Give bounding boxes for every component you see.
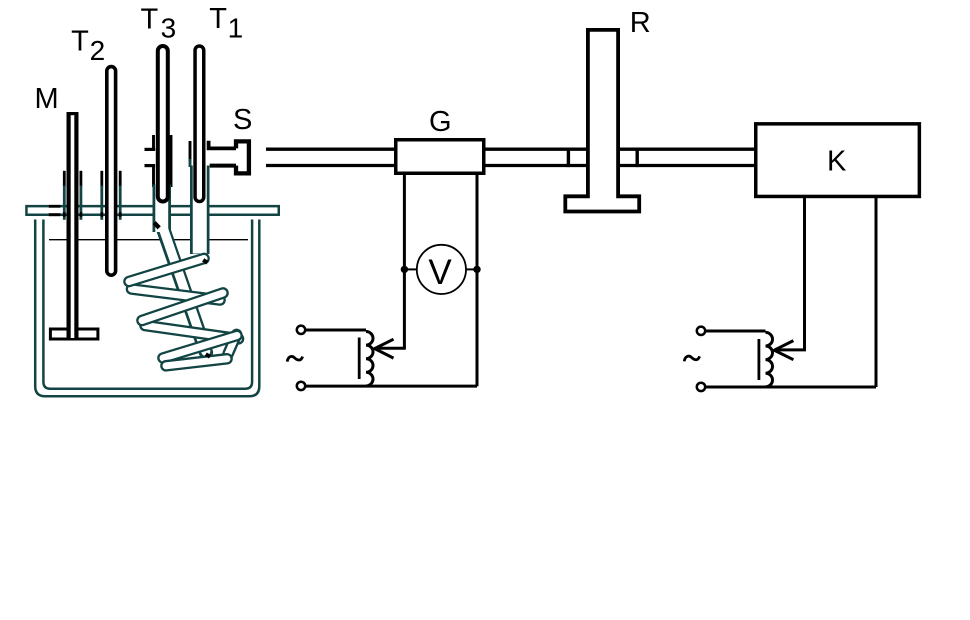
bus wire top — [266, 148, 754, 151]
calorimeter lid — [26, 205, 278, 216]
bus wire bottom — [266, 164, 754, 167]
heater coil turn E (bottom strand) — [166, 359, 227, 366]
bus tick 2 — [636, 148, 639, 168]
svg-text:1: 1 — [228, 12, 244, 43]
autotransformer right: bottom wire — [705, 386, 876, 389]
autotransformer right: terminal top — [697, 327, 705, 335]
voltmeter V — [406, 245, 476, 294]
autotransformer left: AC tilde — [287, 356, 302, 361]
autotransformer left: core bar — [358, 338, 361, 380]
svg-text:V: V — [428, 253, 452, 292]
autotransformer right: AC tilde — [684, 356, 699, 361]
heater coil right connector strand — [228, 335, 237, 355]
heater wire end marks — [154, 223, 210, 357]
svg-text:T: T — [209, 3, 227, 35]
label T1 — [209, 3, 243, 43]
switch plug S body — [236, 141, 249, 173]
autotransformer right: wiper arrow — [774, 341, 793, 360]
svg-text:T: T — [71, 26, 89, 58]
svg-text:S: S — [233, 104, 252, 136]
label T2 — [71, 26, 105, 66]
svg-text:K: K — [827, 146, 847, 178]
wire from G right down — [476, 175, 479, 386]
rheostat R body — [565, 30, 639, 212]
heater lead tube right (vertical part) — [190, 141, 200, 254]
heater coil turn A (front strand) — [129, 259, 204, 282]
heater coil turn F2 (front strand) — [142, 293, 223, 321]
wire from K right down — [875, 198, 878, 387]
thermometer T1 — [195, 46, 204, 202]
stirrer collar through lid — [64, 171, 81, 220]
autotransformer left: wiper arrow — [375, 339, 394, 358]
label T3 — [141, 4, 177, 44]
wire from G left down — [403, 175, 406, 348]
autotransformer left: winding — [366, 332, 373, 386]
autotransformer right: winding — [766, 332, 773, 386]
svg-text:2: 2 — [90, 35, 106, 66]
svg-text:M: M — [35, 83, 59, 115]
calorimeter inner vessel wall — [43, 220, 252, 389]
switch plug S bars — [209, 141, 238, 166]
thermometer T2 — [107, 67, 116, 276]
autotransformer left: terminal top — [297, 326, 305, 334]
svg-text:R: R — [630, 7, 651, 39]
autotransformer right: wiper wire — [776, 348, 807, 351]
heater coil turn D (back strand) — [145, 326, 239, 339]
galvanometer G box — [396, 140, 484, 174]
autotransformer left: bottom wire — [305, 385, 477, 388]
svg-text:G: G — [429, 106, 452, 138]
thermometer T2 collar through lid — [102, 171, 120, 220]
stirrer M paddle — [50, 329, 98, 339]
svg-text:T: T — [141, 4, 159, 36]
heater coil turn B (back strand) — [132, 289, 221, 300]
wire from K left down — [803, 198, 806, 350]
bus tick 1 — [567, 148, 570, 168]
heater lead tube left (vertical part) — [145, 135, 207, 353]
svg-text:3: 3 — [161, 13, 177, 44]
calorimeter outer vessel wall — [35, 220, 259, 397]
water level line — [49, 239, 248, 241]
autotransformer right: terminal bottom — [697, 383, 705, 391]
stirrer M rod — [67, 112, 79, 338]
autotransformer left: terminal bottom — [297, 382, 305, 390]
autotransformer right: core bar — [758, 339, 761, 380]
autotransformer left: wiper wire — [376, 347, 406, 350]
key K box — [756, 124, 920, 197]
thermometer T3 — [158, 46, 168, 202]
autotransformer right: top wire — [705, 330, 765, 333]
heater coil turn F3 (front strand) — [163, 336, 237, 359]
junction node right of V — [473, 266, 480, 273]
junction node left of V — [401, 266, 408, 273]
autotransformer left: top wire — [305, 329, 366, 332]
